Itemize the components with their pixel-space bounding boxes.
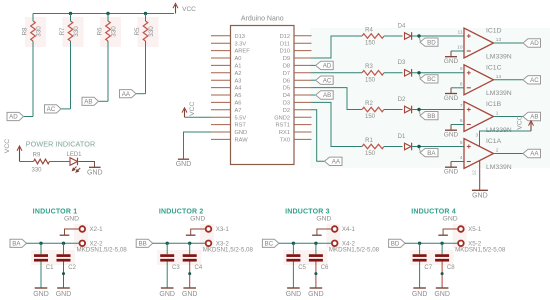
ground left of Arduino	[176, 159, 192, 168]
svg-text:IC1C: IC1C	[486, 64, 502, 71]
svg-text:GND: GND	[56, 291, 72, 298]
ground at X3-1	[186, 216, 206, 236]
svg-text:D3: D3	[283, 101, 290, 107]
ground at pin 8	[444, 88, 459, 102]
net label BA	[419, 148, 438, 157]
connector pin X2-1	[80, 226, 104, 233]
wire D3 to comparator	[412, 72, 464, 74]
junction at C6	[314, 242, 317, 245]
net label AA (output)	[523, 149, 541, 157]
connector pin X3-2	[206, 241, 230, 248]
svg-text:D13: D13	[235, 34, 245, 40]
junction at C4	[188, 242, 191, 245]
ground at X2-1	[60, 216, 79, 236]
wire D3 to comparator row 4	[312, 102, 363, 146]
svg-text:MKDSN1,5/2-5,08: MKDSN1,5/2-5,08	[329, 247, 380, 254]
svg-text:D11: D11	[280, 41, 290, 47]
capacitor C7	[413, 243, 433, 287]
svg-text:330: 330	[36, 26, 43, 37]
wire R9 to LED1	[50, 161, 71, 163]
svg-text:RST1: RST1	[275, 123, 290, 129]
wire D7 to comparator row 2	[312, 72, 363, 74]
resistor R1 150	[362, 138, 384, 157]
wire R4 to D4	[384, 35, 403, 37]
svg-text:RX1: RX1	[279, 130, 290, 136]
ground at pin 6	[444, 125, 459, 139]
ground at X4-1	[312, 216, 332, 236]
VCC supply top-left	[33, 3, 196, 13]
svg-text:INDUCTOR 4: INDUCTOR 4	[411, 208, 456, 215]
wire R5 down	[145, 41, 147, 94]
wire R6 down	[107, 41, 109, 101]
svg-text:GND: GND	[235, 130, 248, 136]
svg-text:D2: D2	[398, 97, 406, 103]
wire R8 down	[32, 41, 34, 117]
wire D2 down to AA	[312, 110, 325, 162]
svg-text:VCC: VCC	[182, 6, 196, 13]
svg-text:LM339N: LM339N	[486, 90, 512, 97]
svg-text:R5: R5	[134, 27, 141, 36]
svg-text:A4: A4	[235, 86, 242, 92]
svg-text:GND: GND	[182, 291, 198, 298]
svg-text:GND2: GND2	[274, 115, 290, 121]
svg-text:LM339N: LM339N	[486, 127, 512, 134]
svg-text:BA: BA	[427, 150, 436, 157]
diode D2	[398, 97, 412, 113]
capacitor C2	[57, 243, 77, 287]
svg-text:LED1: LED1	[66, 152, 82, 158]
svg-text:7: 7	[460, 103, 463, 109]
net label AB at D4	[312, 91, 334, 99]
junction at C5	[292, 242, 295, 245]
svg-text:2: 2	[496, 148, 499, 154]
junction top wire at R7	[69, 12, 72, 15]
net label BD (bottom)	[389, 239, 406, 247]
net label AD (output)	[523, 39, 541, 47]
VCC supply power indicator	[4, 139, 22, 162]
svg-text:A1: A1	[235, 64, 242, 70]
svg-text:D4: D4	[283, 93, 290, 99]
wire output IC1B	[494, 116, 524, 118]
capacitor C8	[435, 243, 455, 287]
net label BB	[419, 111, 438, 120]
wire D1 to comparator	[412, 146, 464, 148]
junction at C8	[440, 242, 443, 245]
wire R3 to D3	[384, 72, 403, 74]
ground below C3	[159, 288, 175, 298]
svg-text:C3: C3	[172, 265, 180, 271]
svg-text:D5: D5	[283, 86, 290, 92]
svg-text:A6: A6	[235, 101, 242, 107]
svg-text:GND: GND	[308, 291, 324, 298]
svg-text:GND: GND	[443, 216, 458, 223]
diode D1	[398, 134, 412, 150]
ground at pin 10	[444, 51, 459, 65]
svg-text:X5-1: X5-1	[468, 226, 482, 233]
svg-text:150: 150	[365, 151, 376, 157]
svg-text:GND: GND	[444, 95, 459, 102]
connector pin X4-1	[332, 226, 356, 233]
svg-text:330: 330	[73, 26, 80, 37]
svg-text:INDUCTOR 1: INDUCTOR 1	[33, 208, 78, 215]
svg-text:MKDSN1,5/2-5,08: MKDSN1,5/2-5,08	[77, 247, 128, 254]
svg-text:D4: D4	[398, 23, 406, 29]
svg-text:IC1D: IC1D	[486, 28, 502, 35]
svg-text:GND: GND	[33, 291, 49, 298]
svg-text:Arduino Nano: Arduino Nano	[241, 16, 284, 23]
connector value MKDSN1,5/2-5,08	[329, 247, 380, 254]
svg-text:BD: BD	[427, 39, 436, 46]
svg-text:INDUCTOR 3: INDUCTOR 3	[285, 208, 330, 215]
svg-text:VCC: VCC	[4, 139, 11, 153]
wire output IC1C	[494, 79, 524, 81]
svg-text:AA: AA	[530, 151, 539, 158]
resistor R3 150	[362, 64, 384, 83]
wire BA to X2-2	[27, 242, 80, 244]
svg-text:3.3V: 3.3V	[235, 41, 247, 47]
svg-text:GND: GND	[444, 169, 459, 176]
net label BA (bottom)	[10, 239, 27, 247]
svg-text:C4: C4	[195, 265, 203, 271]
svg-text:AC: AC	[323, 77, 332, 84]
section title INDUCTOR 4	[411, 208, 456, 215]
connector pin X4-2	[332, 241, 356, 248]
net label AB (left bank)	[82, 97, 108, 105]
ground below C7	[412, 288, 428, 298]
wire D9 to comparator row 1	[312, 36, 363, 58]
svg-text:X3-1: X3-1	[216, 226, 230, 233]
svg-text:AB: AB	[84, 99, 92, 106]
net label AC (output)	[523, 76, 541, 84]
svg-text:GND: GND	[434, 291, 450, 298]
svg-text:C1: C1	[46, 265, 54, 271]
resistor R2 150	[362, 101, 384, 120]
svg-text:R3: R3	[365, 64, 373, 70]
net label BC (bottom)	[262, 239, 279, 247]
junction top wire at R5	[144, 12, 147, 15]
connector pin X5-1	[458, 226, 482, 233]
pin 10 (-) of IC1D	[451, 45, 464, 51]
svg-text:LM339N: LM339N	[486, 53, 512, 60]
svg-text:GND: GND	[286, 291, 302, 298]
junction below C8	[441, 272, 444, 275]
Arduino Nano left pin names	[235, 34, 251, 144]
ground below C6	[308, 288, 324, 298]
svg-text:12: 12	[471, 170, 477, 176]
pin 14 output of IC1C	[496, 74, 502, 80]
svg-text:GND: GND	[316, 216, 331, 223]
svg-text:D10: D10	[280, 49, 290, 55]
capacitor C5	[286, 243, 306, 287]
svg-text:BC: BC	[427, 76, 436, 83]
wire R1 to D1	[384, 146, 403, 148]
svg-text:X4-1: X4-1	[342, 226, 356, 233]
svg-text:GND: GND	[159, 291, 175, 298]
svg-text:5: 5	[460, 140, 463, 146]
op-amp IC1A	[464, 138, 512, 171]
junction at C2	[62, 242, 65, 245]
svg-text:R1: R1	[365, 138, 373, 144]
svg-text:AC: AC	[47, 106, 56, 113]
svg-text:A5: A5	[235, 93, 242, 99]
Arduino Nano right pin names	[274, 34, 290, 144]
ground at X5-1	[438, 216, 458, 236]
resistor R5 330	[134, 14, 155, 42]
pin 6 (-) of IC1B	[451, 118, 464, 124]
resistor R8 330	[22, 14, 43, 42]
connector value MKDSN1,5/2-5,08	[77, 247, 128, 254]
wire R7 down	[70, 41, 72, 109]
svg-text:BB: BB	[138, 241, 146, 248]
junction below C4	[188, 272, 191, 275]
svg-text:C6: C6	[321, 265, 329, 271]
resistor R6 330	[97, 14, 118, 42]
net label BC	[419, 74, 438, 83]
pin 1 output of IC1B	[496, 111, 499, 117]
VCC supply at pin 3 of IC1A	[476, 115, 534, 146]
op-amp IC1C	[464, 64, 512, 97]
svg-text:BB: BB	[427, 113, 435, 120]
svg-text:GND: GND	[444, 132, 459, 139]
svg-text:14: 14	[496, 74, 502, 80]
svg-text:MKDSN1,5/2-5,08: MKDSN1,5/2-5,08	[203, 247, 254, 254]
pin 11 (+) of IC1D	[458, 29, 463, 35]
svg-text:C5: C5	[298, 265, 306, 271]
svg-text:A0: A0	[235, 56, 242, 62]
svg-text:C7: C7	[424, 265, 432, 271]
svg-text:9: 9	[460, 66, 463, 72]
capacitor C1	[34, 243, 54, 287]
svg-text:VCC: VCC	[517, 115, 524, 129]
svg-text:GND: GND	[64, 216, 79, 223]
junction below C2	[62, 272, 65, 275]
wire D4 to comparator	[412, 35, 464, 37]
wire R2 to D2	[384, 109, 403, 111]
svg-text:IC1B: IC1B	[486, 101, 502, 108]
svg-text:6: 6	[460, 118, 463, 124]
svg-text:4: 4	[460, 155, 463, 161]
svg-text:IC1A: IC1A	[486, 138, 502, 145]
section title INDUCTOR 1	[33, 208, 78, 215]
pin 2 output of IC1A	[496, 148, 499, 154]
svg-text:5.5V: 5.5V	[235, 115, 247, 121]
svg-text:1: 1	[496, 111, 499, 117]
svg-text:D12: D12	[280, 34, 290, 40]
junction at C7	[418, 242, 421, 245]
junction top wire at R6	[106, 12, 109, 15]
svg-text:D6: D6	[283, 78, 290, 84]
svg-text:POWER INDICATOR: POWER INDICATOR	[26, 139, 96, 148]
Arduino Nano left pins	[211, 36, 231, 140]
wire D2 to comparator	[412, 109, 464, 111]
svg-text:BD: BD	[391, 241, 400, 248]
junction after D4	[417, 34, 420, 37]
svg-text:150: 150	[365, 77, 376, 83]
svg-text:AB: AB	[530, 114, 538, 121]
svg-text:D9: D9	[283, 56, 290, 62]
wire D5 to comparator row 3	[312, 88, 363, 110]
net label AB (output)	[523, 112, 541, 120]
connector pin X5-2	[458, 241, 482, 248]
net label AC at D6	[312, 76, 334, 84]
svg-text:AD: AD	[530, 40, 539, 47]
svg-text:AC: AC	[530, 77, 539, 84]
capacitor C4	[183, 243, 203, 287]
Arduino Nano right pins	[294, 36, 312, 140]
POWER INDICATOR title	[26, 139, 96, 148]
junction after D2	[417, 108, 420, 111]
pin 13 output of IC1D	[496, 37, 502, 43]
wire BC to X4-2	[279, 242, 332, 244]
svg-text:GND: GND	[472, 193, 488, 200]
pin 8 (-) of IC1C	[451, 81, 464, 87]
svg-text:R8: R8	[22, 27, 29, 36]
pin 4 (-) of IC1A	[451, 155, 464, 161]
net label AD at D8	[312, 61, 334, 69]
svg-text:AD: AD	[323, 63, 332, 70]
svg-text:R9: R9	[33, 153, 41, 159]
svg-text:C2: C2	[68, 265, 76, 271]
ground below C5	[286, 288, 302, 298]
svg-text:D7: D7	[283, 71, 290, 77]
svg-text:13: 13	[496, 37, 502, 43]
svg-text:AA: AA	[332, 159, 341, 166]
section title INDUCTOR 2	[159, 208, 204, 215]
resistor R4 150	[362, 27, 384, 46]
section title INDUCTOR 3	[285, 208, 330, 215]
capacitor C6	[309, 243, 329, 287]
svg-text:AA: AA	[122, 91, 131, 98]
op-amp IC1D	[464, 28, 512, 61]
wire GND pin to ground	[184, 132, 212, 159]
VCC supply at 5.5V pin	[182, 101, 211, 117]
svg-text:A2: A2	[235, 71, 242, 77]
pin 9 (+) of IC1C	[460, 66, 463, 72]
net label AA below Arduino	[325, 157, 343, 165]
svg-text:D3: D3	[398, 60, 406, 66]
LED LED1	[66, 152, 82, 172]
wire BB to X3-2	[153, 242, 206, 244]
svg-text:10: 10	[457, 45, 463, 51]
svg-text:AD: AD	[9, 114, 18, 121]
IC U1 Arduino Nano body	[231, 16, 295, 165]
svg-text:LM339N: LM339N	[486, 164, 512, 171]
wire output IC1D	[494, 42, 524, 44]
connector value MKDSN1,5/2-5,08	[455, 247, 506, 254]
svg-text:330: 330	[148, 26, 155, 37]
pin 7 (+) of IC1B	[460, 103, 463, 109]
ground below C1	[33, 288, 49, 298]
junction at C1	[39, 242, 42, 245]
resistor R7 330	[59, 14, 80, 42]
wire output IC1A	[494, 153, 524, 155]
svg-text:D2: D2	[283, 108, 290, 114]
svg-text:D1: D1	[398, 134, 406, 140]
svg-text:3: 3	[476, 132, 479, 138]
svg-text:BC: BC	[264, 241, 273, 248]
svg-text:MKDSN1,5/2-5,08: MKDSN1,5/2-5,08	[455, 247, 506, 254]
svg-text:R6: R6	[97, 27, 104, 36]
connector pin X3-1	[206, 226, 230, 233]
svg-text:11: 11	[458, 29, 463, 35]
svg-text:A7: A7	[235, 108, 242, 114]
svg-text:VCC: VCC	[189, 101, 196, 115]
net label AA (left bank)	[120, 90, 146, 98]
net label BD	[419, 37, 438, 46]
svg-text:R4: R4	[365, 27, 373, 33]
ground below C4	[182, 288, 198, 298]
net label AC (left bank)	[45, 105, 71, 113]
svg-text:150: 150	[365, 114, 376, 120]
svg-text:BA: BA	[12, 241, 21, 248]
capacitor C3	[160, 243, 180, 287]
svg-text:D8: D8	[283, 64, 290, 70]
wire LED1 to GND	[79, 162, 95, 168]
junction after D1	[417, 145, 420, 148]
svg-text:GND: GND	[412, 291, 428, 298]
junction after D3	[417, 71, 420, 74]
svg-text:C8: C8	[447, 265, 455, 271]
svg-text:INDUCTOR 2: INDUCTOR 2	[159, 208, 204, 215]
ground at pin 4	[444, 162, 459, 176]
wire BD to X5-2	[405, 242, 458, 244]
junction at C3	[166, 242, 169, 245]
svg-text:R2: R2	[365, 101, 373, 107]
svg-text:TX0: TX0	[280, 138, 290, 144]
svg-text:AREF: AREF	[235, 49, 251, 55]
ground power indicator	[87, 167, 103, 176]
op-amp IC1B	[464, 101, 512, 134]
connector value MKDSN1,5/2-5,08	[203, 247, 254, 254]
svg-text:GND: GND	[176, 161, 192, 168]
resistor R9 330	[31, 153, 49, 174]
junction below C6	[314, 272, 317, 275]
diode D4	[398, 23, 412, 39]
svg-text:R7: R7	[59, 27, 66, 36]
svg-text:330: 330	[111, 26, 118, 37]
svg-text:330: 330	[31, 167, 42, 173]
svg-text:GND: GND	[444, 58, 459, 65]
svg-text:X2-1: X2-1	[90, 226, 104, 233]
svg-text:RST: RST	[235, 123, 247, 129]
diode D3	[398, 60, 412, 76]
net label AD (left bank)	[7, 112, 33, 120]
svg-text:150: 150	[365, 41, 376, 47]
connector pin X2-2	[80, 241, 104, 248]
net label BB (bottom)	[136, 239, 153, 247]
wire VCC to R9	[20, 161, 34, 163]
ground below C2	[56, 288, 72, 298]
svg-text:8: 8	[460, 81, 463, 87]
pin 12 of IC1A to ground	[471, 161, 479, 190]
ground below C8	[434, 288, 450, 298]
ground at pin 12 of IC1A	[472, 190, 488, 199]
svg-text:RAW: RAW	[235, 138, 249, 144]
svg-text:GND: GND	[190, 216, 205, 223]
pin 5 (+) of IC1A	[460, 140, 463, 146]
svg-text:A3: A3	[235, 78, 242, 84]
svg-text:GND: GND	[87, 170, 103, 177]
svg-text:AB: AB	[323, 92, 331, 99]
